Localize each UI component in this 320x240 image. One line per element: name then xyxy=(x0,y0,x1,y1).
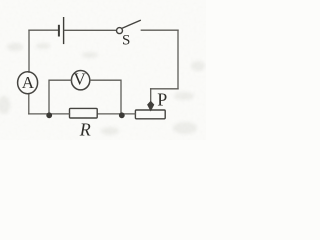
paper texture xyxy=(0,0,206,140)
junction dot right xyxy=(119,112,125,118)
junction dot left xyxy=(46,112,52,118)
switch S pivot circle xyxy=(117,28,123,34)
wire to rheostat wiper xyxy=(151,88,178,90)
rheostat wiper arrowhead xyxy=(147,101,154,112)
voltmeter V circle xyxy=(71,71,89,90)
wire switch to top-right corner xyxy=(141,29,178,31)
battery B1 positive plate (long thin) xyxy=(63,18,65,44)
wire left vertical (corner down to ammeter) xyxy=(28,30,30,72)
svg-text:R: R xyxy=(79,119,91,139)
svg-text:A: A xyxy=(22,73,35,92)
ammeter A circle xyxy=(18,72,38,94)
wire ammeter down to bottom wire xyxy=(28,94,30,114)
svg-text:P: P xyxy=(157,89,167,109)
wire rheostat to resistor xyxy=(97,113,135,115)
rheostat P body xyxy=(135,110,165,119)
wire top-left horizontal (corner to battery) xyxy=(29,29,58,31)
wire resistor to ammeter branch xyxy=(29,113,70,115)
switch S blade (open) xyxy=(122,20,140,28)
wire right vertical xyxy=(177,30,179,89)
resistor R body xyxy=(70,108,98,118)
rheostat P wiper shaft xyxy=(150,89,152,103)
wire voltmeter right branch xyxy=(90,80,121,114)
battery B1 negative plate (short thick) xyxy=(58,26,60,36)
svg-text:V: V xyxy=(73,70,86,89)
paper smudge patches xyxy=(0,43,205,135)
wire voltmeter left branch xyxy=(49,80,72,114)
wire battery to switch xyxy=(64,29,116,31)
svg-text:S: S xyxy=(122,33,130,49)
